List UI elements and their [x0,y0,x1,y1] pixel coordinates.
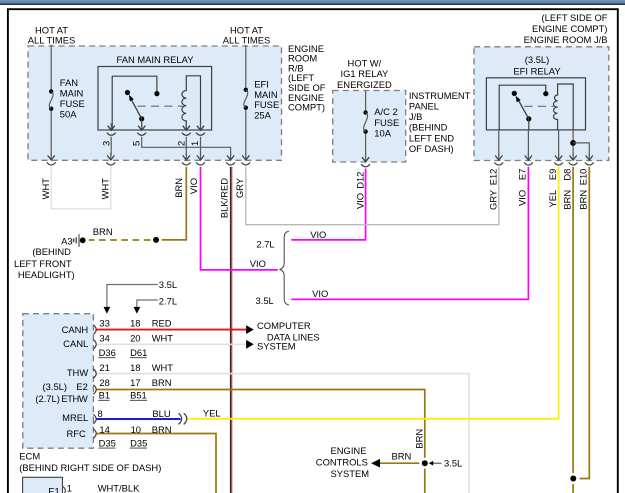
svg-text:2: 2 [176,141,187,146]
svg-text:EFI RELAY: EFI RELAY [513,66,561,77]
svg-text:10: 10 [131,424,141,435]
svg-text:28: 28 [99,377,109,388]
svg-text:BRN: BRN [173,178,184,198]
svg-text:SYSTEM: SYSTEM [331,468,370,479]
svg-text:BRN: BRN [413,429,424,449]
svg-text:FAN MAIN RELAY: FAN MAIN RELAY [117,54,195,65]
svg-text:D61: D61 [130,347,147,358]
svg-text:D8: D8 [561,169,572,181]
svg-text:BRN: BRN [93,226,113,237]
svg-text:BRN: BRN [561,190,572,210]
svg-text:PANEL: PANEL [409,101,439,112]
svg-text:J/B: J/B [409,111,423,122]
svg-text:ALL TIMES: ALL TIMES [28,34,75,45]
svg-text:E2: E2 [76,381,87,392]
svg-text:VIO: VIO [310,229,326,240]
svg-text:ECM: ECM [19,450,40,461]
svg-text:WHT: WHT [40,178,51,200]
svg-text:8: 8 [98,408,103,419]
svg-text:BRN: BRN [578,190,589,210]
svg-text:18: 18 [130,317,140,328]
svg-text:VIO: VIO [354,193,365,209]
svg-text:BRN: BRN [152,377,172,388]
svg-text:14: 14 [99,424,109,435]
svg-text:5: 5 [130,141,141,146]
svg-text:VIO: VIO [250,258,266,269]
svg-text:B51: B51 [130,390,147,401]
svg-text:ENGINE ROOM J/B: ENGINE ROOM J/B [524,34,608,45]
svg-text:RED: RED [152,317,172,328]
svg-text:MREL: MREL [62,412,88,423]
svg-text:FUSE: FUSE [254,99,279,110]
svg-text:ENERGIZED: ENERGIZED [337,79,392,90]
svg-text:BLK/RED: BLK/RED [219,178,230,218]
svg-text:FUSE: FUSE [374,117,399,128]
svg-text:(3.5L): (3.5L) [525,54,550,65]
svg-text:FAN: FAN [60,77,78,88]
svg-text:ENGINE: ENGINE [331,445,367,456]
svg-text:BLU: BLU [152,408,170,419]
svg-text:ETHW: ETHW [61,393,88,404]
svg-text:18: 18 [130,362,140,373]
svg-text:25A: 25A [254,110,271,121]
svg-text:CANL: CANL [63,338,88,349]
svg-text:3.5L: 3.5L [444,458,462,469]
svg-text:EFI: EFI [254,78,269,89]
svg-text:IG1 RELAY: IG1 RELAY [341,68,390,79]
svg-text:HOT W/: HOT W/ [348,57,382,68]
svg-text:ALL TIMES: ALL TIMES [223,34,270,45]
svg-text:BRN: BRN [152,424,172,435]
svg-text:10A: 10A [374,127,391,138]
svg-text:CONTROLS: CONTROLS [316,456,368,467]
svg-text:(LEFT SIDE OF: (LEFT SIDE OF [542,12,608,23]
svg-text:ENGINE COMPT): ENGINE COMPT) [532,23,608,34]
svg-text:COMPUTER: COMPUTER [257,320,311,331]
svg-text:SYSTEM: SYSTEM [257,341,296,352]
svg-text:E9: E9 [547,169,558,180]
svg-text:3.5L: 3.5L [256,295,274,306]
svg-text:A/C 2: A/C 2 [374,106,397,117]
svg-text:OF DASH): OF DASH) [409,143,454,154]
svg-text:WHT: WHT [152,333,174,344]
svg-text:D35: D35 [99,438,116,449]
svg-text:INSTRUMENT: INSTRUMENT [409,90,471,101]
svg-text:YEL: YEL [547,190,558,208]
svg-text:FUSE: FUSE [60,98,85,109]
svg-text:(BEHIND: (BEHIND [409,122,448,133]
svg-text:E10: E10 [578,169,589,186]
svg-text:MAIN: MAIN [254,89,277,100]
svg-text:CANH: CANH [62,324,89,335]
svg-text:LEFT END: LEFT END [409,132,454,143]
svg-text:(BEHIND RIGHT SIDE OF DASH): (BEHIND RIGHT SIDE OF DASH) [19,462,161,473]
svg-text:E1: E1 [48,486,59,493]
svg-text:1: 1 [189,141,200,146]
svg-text:A3: A3 [61,235,72,246]
svg-text:2.7L: 2.7L [256,238,274,249]
svg-text:HEADLIGHT): HEADLIGHT) [18,269,75,280]
svg-text:VIO: VIO [312,288,328,299]
svg-text:LEFT FRONT: LEFT FRONT [14,258,72,269]
svg-text:D35: D35 [130,438,147,449]
svg-text:(2.7L): (2.7L) [35,393,60,404]
svg-text:D36: D36 [99,347,116,358]
svg-text:17: 17 [130,377,140,388]
svg-text:3.5L: 3.5L [159,279,177,290]
svg-text:RFC: RFC [67,428,86,439]
svg-text:COMPT): COMPT) [288,102,325,113]
svg-text:50A: 50A [60,108,77,119]
svg-text:WHT/BLK: WHT/BLK [98,482,140,493]
svg-text:E12: E12 [487,169,498,186]
svg-text:VIO: VIO [188,178,199,194]
svg-text:VIO: VIO [517,190,528,206]
svg-text:WHT: WHT [100,178,111,200]
svg-text:21: 21 [99,362,109,373]
svg-text:MAIN: MAIN [60,88,83,99]
svg-text:D12: D12 [354,172,365,189]
svg-text:GRY: GRY [487,189,498,210]
svg-text:YEL: YEL [203,407,221,418]
svg-text:3: 3 [100,141,111,146]
svg-text:GRY: GRY [234,177,245,198]
svg-text:THW: THW [67,367,88,378]
svg-text:E7: E7 [517,169,528,180]
svg-text:WHT: WHT [152,362,174,373]
svg-text:(3.5L): (3.5L) [43,381,68,392]
svg-text:33: 33 [99,317,109,328]
svg-text:B1: B1 [99,390,110,401]
svg-text:34: 34 [99,333,109,344]
svg-text:BRN: BRN [392,451,412,462]
svg-text:(BEHIND: (BEHIND [32,246,71,257]
svg-text:20: 20 [130,333,140,344]
svg-text:1: 1 [67,482,72,493]
svg-text:2.7L: 2.7L [159,296,177,307]
